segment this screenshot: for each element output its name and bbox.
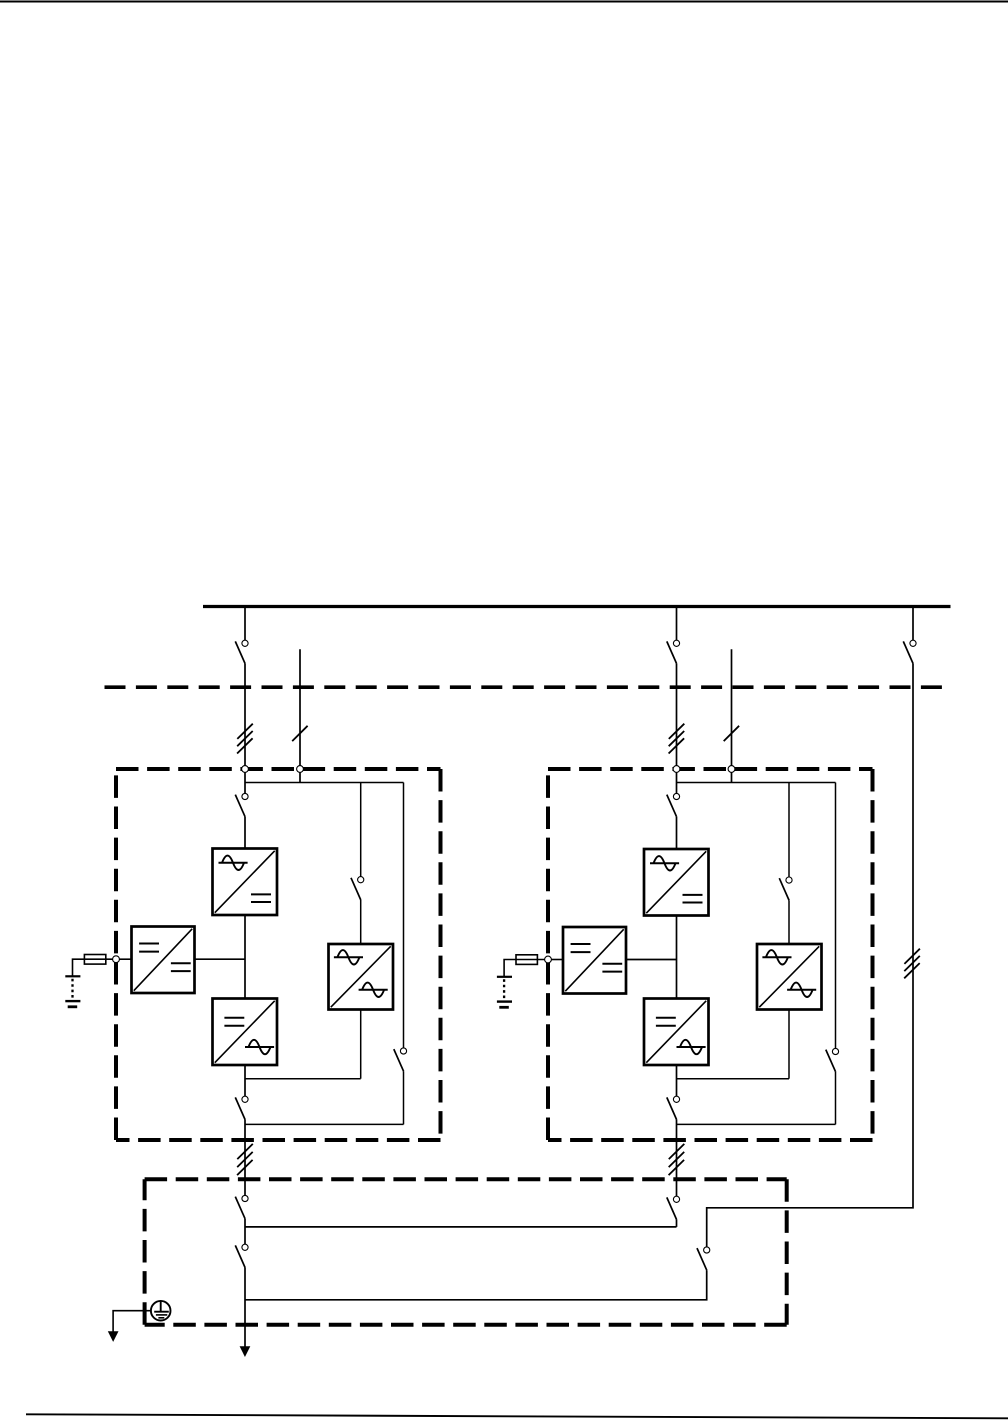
inverter U7 (DC/AC)	[644, 999, 709, 1066]
battery B2	[497, 977, 512, 1008]
wire: UPS2 bottom junction	[677, 1123, 836, 1125]
page bottom rule	[26, 1414, 1008, 1418]
wire: bypass module output	[360, 1010, 362, 1079]
switch: maintenance bypass output	[697, 1247, 710, 1270]
switch: UPS2 output isolator	[667, 1096, 680, 1119]
switch: UPS2 rectifier input isolator	[667, 793, 680, 816]
wire: isolator to rectifier	[244, 817, 246, 849]
wire: static switch to bypass converter (UPS2)	[788, 900, 790, 944]
wire: service branch to output junction (UPS2)	[835, 1072, 837, 1125]
UPS2 terminal node (rectifier input)	[673, 766, 680, 773]
wire: UPS2 right service branch	[835, 783, 837, 1049]
battery B1	[65, 976, 80, 1007]
switch: UPS1 output isolator	[235, 1096, 248, 1119]
wire: bus to UPS1 input breaker	[244, 607, 246, 641]
UPS2 enclosure dashed box	[548, 769, 873, 1140]
fuse F2 (UPS2 battery)	[516, 955, 537, 965]
UPS1 terminal node (bypass input)	[297, 766, 304, 773]
fuse F1 (UPS1 battery)	[84, 955, 105, 965]
wire: paralleling bus	[245, 1226, 677, 1228]
wire: service branch to output junction	[403, 1071, 405, 1124]
switch: output board UPS2 feed	[667, 1196, 680, 1219]
wire: UPS2 static switch branch drop	[788, 783, 790, 878]
switch: UPS1 static bypass	[351, 877, 364, 900]
wire: battery to converter	[73, 959, 117, 976]
wire: UPS1 output feed	[244, 1120, 246, 1196]
protective earth symbol	[151, 1301, 171, 1321]
wire: output feeder to load arrow	[244, 1268, 246, 1348]
wire: UPS2 output to paralleling bus	[676, 1220, 678, 1227]
UPS2 internal bypass rail	[677, 782, 836, 784]
earth wire	[113, 1311, 151, 1332]
switch: UPS2 static bypass	[779, 877, 792, 900]
wire: UPS1 static switch branch drop	[360, 783, 362, 877]
UPS2 terminal node (bypass input)	[728, 766, 735, 773]
UPS1 terminal node (rectifier input)	[242, 766, 249, 773]
wire: bypass feed to UPS2	[731, 649, 733, 783]
3-phase tick marks on maintenance bypass	[904, 949, 920, 979]
wire: Q1 to UPS1 rectifier input terminal	[244, 664, 246, 794]
page top rule	[0, 0, 1008, 2]
breaker Q2 (UPS2 mains feed)	[667, 640, 680, 663]
output distribution dashed box	[145, 1179, 787, 1324]
wire: bus to maintenance bypass breaker	[912, 607, 914, 641]
battery converter U6 (DC/DC)	[563, 927, 626, 994]
wire: rectifier to inverter DC link (UPS2)	[676, 916, 678, 999]
wire: inverter/bypass output junction	[245, 1078, 361, 1080]
switch: UPS1 rectifier input isolator	[235, 793, 248, 816]
wire: UPS1 right service branch	[403, 783, 405, 1048]
switch: load output	[235, 1244, 248, 1267]
inverter U3 (DC/AC)	[213, 999, 278, 1066]
wire: DC link to battery converter	[195, 958, 246, 960]
static bypass module U4 (AC/AC)	[329, 944, 394, 1010]
tick mark on UPS2 bypass feed	[724, 726, 739, 741]
3-phase tick marks on UPS1 mains feed	[237, 724, 253, 754]
wire: inverter output (UPS2)	[676, 1065, 678, 1096]
3-phase tick marks on UPS1 output	[237, 1144, 253, 1175]
wire: bypass module output (UPS2)	[788, 1010, 790, 1079]
UPS2 battery terminal node	[545, 956, 552, 963]
system boundary dashed line	[105, 685, 951, 689]
breaker Q3 (maintenance bypass)	[903, 640, 916, 663]
wire: static switch to bypass converter	[360, 900, 362, 944]
tick mark on UPS1 bypass feed	[292, 726, 307, 741]
UPS1 battery terminal node	[113, 956, 120, 963]
wire: battery terminal into UPS1	[116, 958, 132, 960]
breaker Q1 (UPS1 mains feed)	[235, 640, 248, 663]
wire: battery to converter (UPS2)	[504, 960, 548, 977]
wire: Q2 to UPS2 rectifier input terminal	[676, 664, 678, 794]
static bypass module U8 (AC/AC)	[757, 944, 822, 1010]
wire: maintenance bypass to output junction	[245, 1270, 707, 1300]
battery converter U2 (DC/DC)	[132, 927, 195, 994]
wire: bypass feed to UPS1	[299, 649, 301, 783]
earth arrow	[108, 1331, 119, 1342]
3-phase tick marks on UPS2 mains feed	[669, 724, 685, 754]
wire: isolator to rectifier (UPS2)	[676, 817, 678, 849]
load arrow	[240, 1346, 251, 1357]
wire: UPS1 bottom junction	[245, 1123, 404, 1125]
UPS1 enclosure dashed box	[116, 769, 441, 1140]
wire: inverter/bypass output junction (UPS2)	[677, 1078, 790, 1080]
wire: DC link to battery converter (UPS2)	[626, 959, 677, 961]
wire: maintenance bypass riser	[707, 664, 913, 1247]
wire: battery terminal into UPS2	[548, 959, 563, 961]
switch: UPS1 service bypass	[394, 1048, 407, 1071]
wire: UPS2 output feed	[676, 1120, 678, 1197]
mains input bus	[203, 605, 951, 608]
wire: main output feeder	[244, 1219, 246, 1245]
wire: rectifier to inverter DC link	[244, 915, 246, 999]
3-phase tick marks on UPS2 output	[669, 1144, 685, 1175]
wire: bus to UPS2 input breaker	[676, 607, 678, 641]
wire: inverter output	[244, 1065, 246, 1096]
UPS1 internal bypass rail	[245, 782, 404, 784]
rectifier U5 (AC/DC)	[644, 849, 709, 916]
switch: output board UPS1 feed	[235, 1195, 248, 1218]
switch: UPS2 service bypass	[826, 1048, 839, 1071]
rectifier U1 (AC/DC)	[213, 849, 278, 916]
